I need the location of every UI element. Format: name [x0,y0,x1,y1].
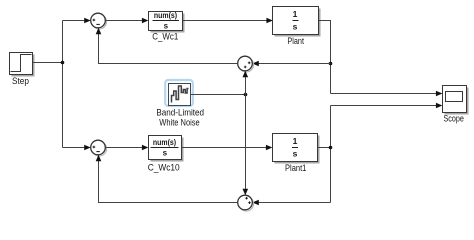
block C_Wc10 [148,136,184,173]
block Scope [443,86,469,124]
wire S3 output feedback to S1 [96,28,238,64]
svg-text:s: s [293,22,298,32]
wire Plant output riser [319,21,331,94]
wire S2 to C_Wc10 [105,145,148,151]
wire C_Wc1 to Plant [183,18,273,24]
wire Plant to Scope input 1 [331,91,443,97]
svg-text:s: s [293,149,298,159]
wire Plant1 to Scope input 2 [331,103,443,109]
svg-text:Plant: Plant [287,36,304,46]
svg-text:C_Wc10: C_Wc10 [148,163,180,173]
wire noise to S3 bottom [243,71,249,95]
svg-text:s: s [163,149,168,158]
svg-text:Step: Step [12,76,29,86]
svg-text:C_Wc1: C_Wc1 [152,32,178,42]
sum S1 [91,13,107,29]
junction Plant output [329,62,333,66]
wire into sum S2 left [63,145,91,151]
wire Plant1 output riser [318,106,331,203]
svg-text:1: 1 [293,9,298,19]
wire step output [33,62,63,64]
wire Plant1 to sum S4 right [252,200,330,206]
svg-text:s: s [164,22,169,31]
wire noise to S4 top [243,95,249,196]
block Band-Limited White Noise (selected) [156,80,204,128]
svg-text:Band-Limited: Band-Limited [156,108,204,118]
svg-text:1: 1 [293,136,298,146]
svg-text:num(s): num(s) [153,138,176,147]
wire Plant to sum S3 right [252,61,330,67]
wire C_Wc10 to Plant1 [182,145,273,151]
junction Plant1 output [329,146,333,150]
block C_Wc1 [149,11,185,42]
block Plant1 [273,134,320,174]
svg-text:Scope: Scope [444,114,464,124]
svg-text:White Noise: White Noise [159,118,199,128]
sum S4 [238,195,254,211]
wire into sum S1 left [63,18,91,24]
block Plant [273,7,321,46]
wire S4 output feedback to S2 [96,155,238,203]
wire step branch vertical [62,21,64,148]
junction noise branch [244,93,248,97]
block Step [10,53,35,87]
sum S3 [238,56,254,72]
wire S1 to C_Wc1 [105,18,148,24]
wire noise output [191,94,246,96]
svg-text:num(s): num(s) [154,11,177,20]
svg-text:Plant1: Plant1 [285,163,306,173]
junction step branch [61,61,65,65]
sum S2 [91,140,107,156]
